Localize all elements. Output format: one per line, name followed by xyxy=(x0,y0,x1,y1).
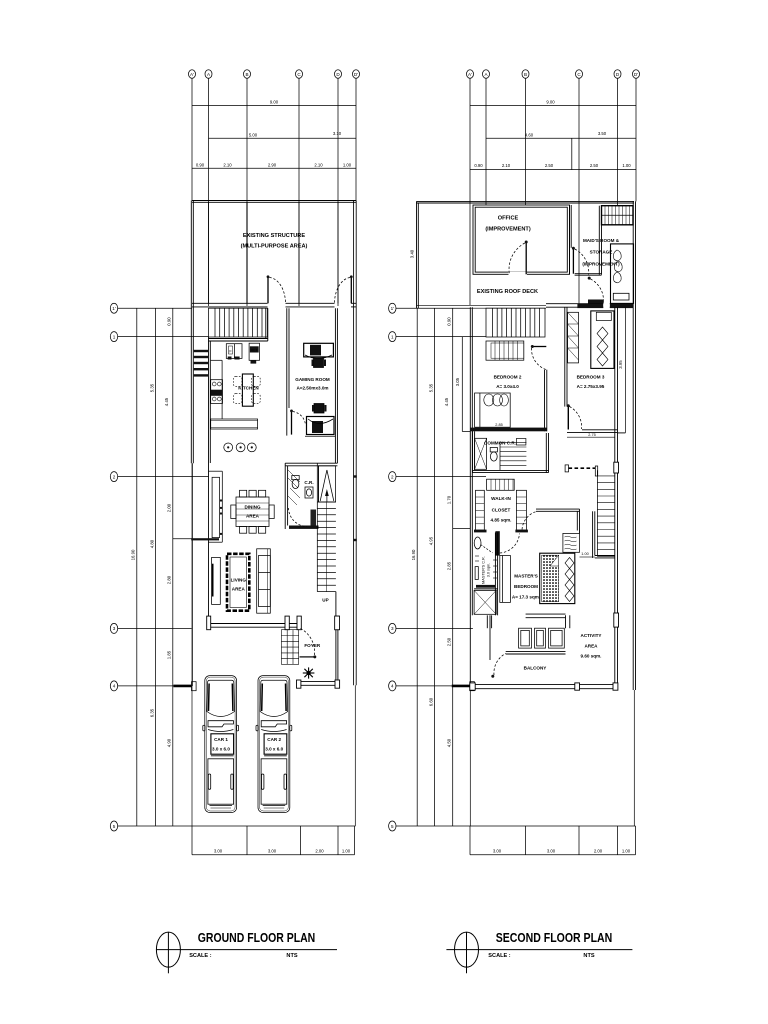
walk-in closet top rack xyxy=(487,479,515,490)
bedroom 2 bed xyxy=(475,393,511,427)
master CR (left strip) xyxy=(495,532,497,615)
grid line B xyxy=(246,78,248,306)
wall bottom of existing structure (row 1') xyxy=(192,303,356,307)
dimension line 9.00 (right) xyxy=(470,100,636,106)
dining table xyxy=(231,490,274,533)
svg-text:1.00: 1.00 xyxy=(342,848,351,853)
svg-text:D': D' xyxy=(354,72,358,77)
gaming room door xyxy=(290,410,305,435)
kitchen stools xyxy=(224,443,256,452)
svg-text:5: 5 xyxy=(113,824,116,829)
dimension line 4.60 / 3.50 (right) xyxy=(486,131,636,170)
bedroom 2 door xyxy=(531,345,547,370)
kitchen bottom counter xyxy=(211,419,258,429)
bedroom 2 walls xyxy=(471,370,547,432)
svg-text:3.0 x 6.0: 3.0 x 6.0 xyxy=(265,747,283,752)
svg-text:4.45: 4.45 xyxy=(444,397,449,406)
CR dark counter xyxy=(311,510,317,526)
svg-text:6.60: 6.60 xyxy=(429,697,434,706)
master bedroom bottom wall xyxy=(487,614,570,628)
grid circle A xyxy=(205,70,212,79)
svg-text:C.R.: C.R. xyxy=(304,480,313,485)
car CAR 1 xyxy=(203,676,239,813)
svg-text:SCALE :: SCALE : xyxy=(189,953,212,959)
wall gaming room right (D) xyxy=(335,308,337,463)
bottom dimension ticks and line 3.00/3.00/2.00/1.00 xyxy=(192,826,355,855)
svg-text:4.60: 4.60 xyxy=(525,132,534,137)
grid circle D xyxy=(335,70,342,79)
stair lower run (UP) xyxy=(317,463,336,591)
wall right D' xyxy=(353,201,357,827)
balcony door xyxy=(490,615,506,677)
bedroom 3 bottom wall xyxy=(567,430,618,437)
svg-text:3.10: 3.10 xyxy=(333,131,342,136)
living rug xyxy=(227,554,249,611)
svg-text:CAR 2: CAR 2 xyxy=(267,737,281,742)
office room walls xyxy=(473,205,570,277)
svg-text:SECOND FLOOR PLAN: SECOND FLOOR PLAN xyxy=(496,930,613,945)
svg-text:16.90: 16.90 xyxy=(131,549,136,560)
stair upper run (right plan) xyxy=(486,308,545,337)
svg-text:D': D' xyxy=(634,72,638,77)
right outer wall D' (right plan) xyxy=(633,201,635,826)
kitchen stove xyxy=(226,344,242,360)
svg-text:3: 3 xyxy=(113,626,116,631)
svg-text:3.00: 3.00 xyxy=(493,848,502,853)
walk-in closet door xyxy=(495,531,519,555)
svg-text:2.10: 2.10 xyxy=(502,163,511,168)
wall foyer right (D) xyxy=(336,592,338,686)
svg-text:NTS: NTS xyxy=(583,953,594,959)
svg-text:1.00: 1.00 xyxy=(343,162,352,167)
svg-text:B: B xyxy=(245,72,248,77)
grid circle D (right) xyxy=(614,70,621,79)
grid circle D' (right) xyxy=(633,70,640,79)
svg-text:A': A' xyxy=(190,72,194,77)
left dim line outer 16.90 xyxy=(131,308,137,826)
svg-text:9.60 sqm.: 9.60 sqm. xyxy=(581,654,602,659)
dimension line 5.00 / 3.10 xyxy=(209,131,357,139)
grid circle A' (right) xyxy=(467,70,474,79)
dim 1.00 stair xyxy=(580,552,595,557)
title symbol second floor xyxy=(446,932,632,973)
svg-text:1.85: 1.85 xyxy=(167,650,172,659)
kitchen island chairs (dashed) xyxy=(233,376,260,403)
left dim line middle 5.35/4.80/6.35 xyxy=(149,308,155,826)
svg-text:A: A xyxy=(207,72,211,77)
grid line B (right) xyxy=(525,78,527,205)
maid's room shelf (hatched) xyxy=(602,206,634,225)
roof deck outline left xyxy=(417,201,419,308)
foyer door xyxy=(300,628,317,658)
svg-text:ACTIVITY: ACTIVITY xyxy=(581,633,602,638)
svg-text:5: 5 xyxy=(391,824,394,829)
walk-in closet left rack xyxy=(476,490,485,530)
left wall (right plan, A') xyxy=(470,307,472,826)
svg-text:2.10: 2.10 xyxy=(314,162,323,167)
maid's room left wall and door xyxy=(570,205,602,275)
svg-text:1.00: 1.00 xyxy=(622,163,631,168)
svg-text:AREA: AREA xyxy=(232,587,246,592)
svg-text:UP: UP xyxy=(322,598,328,603)
wall left A' xyxy=(191,201,193,827)
svg-text:1: 1 xyxy=(113,334,116,339)
svg-text:A=2.50mx3.0m: A=2.50mx3.0m xyxy=(296,386,328,391)
bedroom 3 wardrobe (hatched) xyxy=(568,312,579,363)
row circle 2 xyxy=(110,472,208,482)
svg-text:4.45: 4.45 xyxy=(164,397,169,406)
kitchen refrigerator REF xyxy=(249,343,259,363)
grid circle A (right) xyxy=(483,70,490,79)
master bed xyxy=(540,553,575,603)
maid's room door xyxy=(572,247,589,275)
svg-text:1.70: 1.70 xyxy=(447,495,452,504)
row circle 5 xyxy=(110,821,355,831)
foyer plant xyxy=(303,667,315,678)
svg-text:A= 17.3 sqm.: A= 17.3 sqm. xyxy=(512,595,540,600)
svg-text:NTS: NTS xyxy=(286,953,297,959)
existing structure interior grid verticals xyxy=(208,202,210,303)
dim 3.05 bedroom2 xyxy=(455,337,471,432)
foyer steps xyxy=(281,630,298,665)
gaming room desk top with computer xyxy=(304,343,334,367)
hallway balustrade (dashed) xyxy=(565,465,598,476)
foyer top wall xyxy=(207,616,340,630)
living window bay xyxy=(212,557,221,604)
svg-text:EXISTING ROOF DECK: EXISTING ROOF DECK xyxy=(477,289,538,295)
roof deck outline top xyxy=(417,201,635,203)
svg-text:REF: REF xyxy=(250,348,258,352)
svg-text:(MULTI-PURPOSE AREA): (MULTI-PURPOSE AREA) xyxy=(241,244,308,250)
common CR shower (X hatch) xyxy=(475,438,487,469)
svg-text:2.90: 2.90 xyxy=(268,162,277,167)
right plan left dim middle 5.35/4.95/6.60 xyxy=(429,308,435,826)
svg-text:SCALE :: SCALE : xyxy=(488,953,511,959)
grid circle B (right) xyxy=(522,70,529,79)
svg-text:WALK-IN: WALK-IN xyxy=(491,496,511,501)
roof deck stair door xyxy=(588,277,604,304)
svg-text:4: 4 xyxy=(113,684,116,689)
common CR landing treads xyxy=(500,439,526,471)
svg-text:4.95: 4.95 xyxy=(429,536,434,545)
dimension line 0.90/2.10/2.50/2.50/1.00 (right) xyxy=(470,163,636,169)
svg-text:1': 1' xyxy=(391,306,395,311)
right plan left dim outer 16.90 xyxy=(411,308,417,826)
svg-text:4: 4 xyxy=(391,684,394,689)
svg-text:AREA: AREA xyxy=(584,644,598,649)
svg-text:A: A xyxy=(484,72,488,77)
svg-text:A= 3.0x4.0: A= 3.0x4.0 xyxy=(496,384,519,389)
svg-text:CLOSET: CLOSET xyxy=(492,508,511,513)
grid line A' xyxy=(191,78,193,200)
grid circle A' xyxy=(189,70,196,79)
svg-text:DINING: DINING xyxy=(244,505,261,510)
row circle 3 xyxy=(110,623,191,633)
svg-text:MASTER'S: MASTER'S xyxy=(514,574,538,579)
bedroom 3 left wall and door xyxy=(565,307,567,406)
grid line C (right) xyxy=(578,78,580,305)
walk-in closet thresholds xyxy=(474,530,528,533)
svg-text:EXISTING STRUCTURE: EXISTING STRUCTURE xyxy=(243,233,305,239)
wall above activity area xyxy=(593,511,615,558)
svg-text:16.90: 16.90 xyxy=(411,549,416,560)
svg-text:3.40: 3.40 xyxy=(410,249,415,258)
grid line D xyxy=(337,78,339,306)
balcony seats xyxy=(519,628,565,648)
svg-text:5.35: 5.35 xyxy=(429,383,434,392)
svg-text:0.90: 0.90 xyxy=(196,162,205,167)
kitchen cooktop with burners xyxy=(211,380,223,404)
wall top of existing structure xyxy=(192,201,356,203)
svg-text:2.00: 2.00 xyxy=(167,503,172,512)
dimension line 9.00 xyxy=(192,100,356,106)
svg-text:3.95: 3.95 xyxy=(618,360,623,369)
title symbol ground floor xyxy=(156,932,337,973)
maid's bed xyxy=(611,244,634,304)
svg-text:3.00: 3.00 xyxy=(547,848,556,853)
stair down (right plan) xyxy=(597,470,614,556)
svg-text:GAMING ROOM: GAMING ROOM xyxy=(295,377,330,382)
office door xyxy=(509,241,528,275)
svg-text:1': 1' xyxy=(112,306,116,311)
svg-text:6.35: 6.35 xyxy=(149,708,154,717)
wall below CR (thick) xyxy=(289,526,319,529)
svg-text:2.80: 2.80 xyxy=(167,575,172,584)
svg-text:3.05: 3.05 xyxy=(455,377,460,386)
svg-text:OFFICE: OFFICE xyxy=(498,216,519,222)
svg-text:BALCONY: BALCONY xyxy=(524,666,547,671)
kitchen island table xyxy=(242,374,253,406)
svg-text:2.10: 2.10 xyxy=(223,162,232,167)
wall kitchen/gaming divider xyxy=(287,308,289,435)
kitchen counter left edge xyxy=(211,360,222,419)
svg-text:D: D xyxy=(336,72,340,77)
foyer bottom wall xyxy=(297,680,340,688)
master CR fixtures xyxy=(474,537,497,614)
svg-text:MAID'S ROOM &: MAID'S ROOM & xyxy=(583,238,620,243)
bottom dimension ticks and line (right) 3.00/3.00/2.00/1.00 xyxy=(470,826,636,855)
svg-text:BEDROOM: BEDROOM xyxy=(514,584,538,589)
row circle 5 (right) xyxy=(389,821,636,831)
left dim line inner 0.90/4.45/2.00/2.80/1.85/4.90 xyxy=(164,308,192,826)
wall row 1' (right plan) xyxy=(417,303,634,309)
svg-text:4.50: 4.50 xyxy=(447,738,452,747)
hall closet below stair xyxy=(486,341,524,360)
bottom wall (right plan) xyxy=(470,683,618,690)
svg-text:3.0 sqm.: 3.0 sqm. xyxy=(487,563,491,578)
svg-text:A': A' xyxy=(468,72,472,77)
svg-text:2.85: 2.85 xyxy=(447,561,452,570)
master dresser (squiggle) xyxy=(563,533,580,552)
common CR toilet xyxy=(490,448,497,462)
door leaf left (existing structure) xyxy=(267,275,286,303)
grid circle B xyxy=(244,70,251,79)
bedroom 3 right wall (D) xyxy=(615,307,626,433)
row circle 1 (right) xyxy=(389,332,486,342)
svg-text:2.50: 2.50 xyxy=(447,637,452,646)
svg-text:4.85 sqm.: 4.85 sqm. xyxy=(491,518,512,523)
svg-text:9.00: 9.00 xyxy=(270,100,279,105)
svg-text:4.90: 4.90 xyxy=(167,738,172,747)
gaming room desk bottom with computer xyxy=(305,404,335,437)
stair upper run (top) xyxy=(209,308,268,337)
svg-text:1.00: 1.00 xyxy=(622,848,631,853)
svg-text:B: B xyxy=(524,72,527,77)
row circle 4 xyxy=(110,681,196,691)
svg-text:2.00: 2.00 xyxy=(315,848,324,853)
common CR walls xyxy=(473,431,549,472)
svg-text:1: 1 xyxy=(391,334,394,339)
grid line D (right) xyxy=(617,78,619,205)
CR room xyxy=(285,463,318,529)
balcony rail xyxy=(506,652,566,654)
bedroom 3 bed xyxy=(591,311,614,369)
svg-text:KITCHEN: KITCHEN xyxy=(238,386,259,391)
svg-text:2.00: 2.00 xyxy=(594,848,603,853)
svg-text:0.90: 0.90 xyxy=(474,163,483,168)
svg-text:BEDROOM 3: BEDROOM 3 xyxy=(577,375,605,380)
svg-text:0.90: 0.90 xyxy=(447,317,452,326)
grid line A (right) xyxy=(485,78,487,205)
CR block top wall xyxy=(285,463,337,466)
grid line A xyxy=(208,78,210,306)
svg-text:2: 2 xyxy=(391,474,394,479)
svg-text:2.75: 2.75 xyxy=(588,433,595,437)
CR door arc xyxy=(289,508,307,527)
svg-text:C: C xyxy=(577,72,581,77)
wall below stair xyxy=(209,308,268,341)
row circle 1' xyxy=(110,303,192,313)
svg-text:3: 3 xyxy=(391,626,394,631)
svg-text:(IMPROVEMENT): (IMPROVEMENT) xyxy=(485,227,531,233)
right plan left dim inner 0.90/4.45/1.70/2.85/2.50/4.50 xyxy=(444,308,470,826)
svg-text:3.00: 3.00 xyxy=(268,848,277,853)
wall tick row2b thick xyxy=(191,538,219,540)
master bedroom entry door xyxy=(522,512,536,531)
grid line D' (right) xyxy=(635,78,637,201)
svg-text:2.50: 2.50 xyxy=(545,163,554,168)
living sofa xyxy=(257,549,271,613)
svg-text:AREA: AREA xyxy=(246,514,260,519)
svg-text:3.00: 3.00 xyxy=(214,848,223,853)
svg-text:2.50: 2.50 xyxy=(590,163,599,168)
wall A (kitchen left) xyxy=(209,337,211,624)
svg-text:5.00: 5.00 xyxy=(249,132,258,137)
wall D (right plan, mid) xyxy=(614,433,619,689)
stair landing with up-arrow xyxy=(319,466,336,502)
master cabinet xyxy=(500,556,511,603)
side entry steps (between A' and A) xyxy=(194,350,208,377)
svg-text:C: C xyxy=(297,72,301,77)
svg-text:STORAGE: STORAGE xyxy=(590,250,613,255)
dining window bay xyxy=(209,471,223,542)
row circle 4 (right) xyxy=(389,681,475,691)
svg-text:MASTER'S C.R.: MASTER'S C.R. xyxy=(482,556,486,584)
svg-text:3.50: 3.50 xyxy=(598,131,607,136)
svg-text:F: F xyxy=(229,350,232,354)
grid circle C xyxy=(296,70,303,79)
row circle 2 (right) xyxy=(389,472,486,482)
svg-text:5.35: 5.35 xyxy=(149,383,154,392)
dimension line 0.90/2.10/2.90/2.10/1.00 xyxy=(192,162,356,168)
walk-in closet right rack xyxy=(516,490,526,530)
grid line A' (right) xyxy=(469,78,471,305)
grid circle C (right) xyxy=(576,70,583,79)
svg-text:0.90: 0.90 xyxy=(167,317,172,326)
svg-text:BEDROOM 2: BEDROOM 2 xyxy=(494,375,522,380)
svg-text:3.0 x 6.0: 3.0 x 6.0 xyxy=(212,747,230,752)
grid line C xyxy=(298,78,300,306)
svg-text:FOYER: FOYER xyxy=(304,643,321,648)
master bedroom entry wall xyxy=(536,509,580,533)
svg-text:GROUND FLOOR PLAN: GROUND FLOOR PLAN xyxy=(198,930,316,945)
svg-text:9.00: 9.00 xyxy=(546,100,555,105)
grid line D' xyxy=(355,78,357,200)
svg-text:2: 2 xyxy=(113,474,116,479)
svg-text:CAR 1: CAR 1 xyxy=(214,737,228,742)
svg-text:LIVING: LIVING xyxy=(231,578,247,583)
row circle 1' (right) xyxy=(389,303,470,313)
svg-text:D: D xyxy=(616,72,620,77)
svg-text:1.00: 1.00 xyxy=(581,552,588,556)
row circle 3 (right) xyxy=(389,623,473,633)
grid circle D' xyxy=(353,70,360,79)
svg-text:2.85: 2.85 xyxy=(495,423,502,427)
car CAR 2 xyxy=(256,676,292,813)
door leaf right (existing structure) xyxy=(335,275,353,303)
svg-text:4.80: 4.80 xyxy=(149,539,154,548)
svg-text:A= 2.75x3.95: A= 2.75x3.95 xyxy=(577,384,605,389)
row circle 1 xyxy=(110,332,208,342)
